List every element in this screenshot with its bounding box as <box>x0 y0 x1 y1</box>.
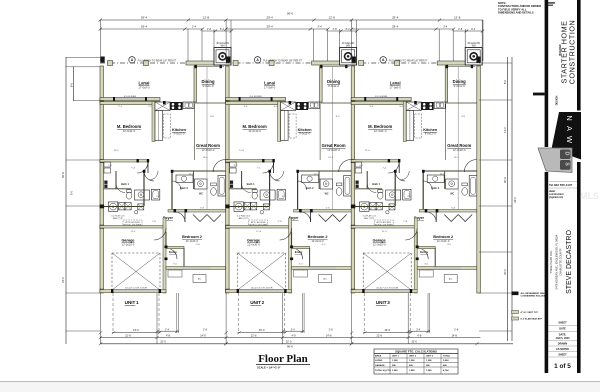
svg-text:TOTAL SQ FTG: TOTAL SQ FTG <box>375 369 391 372</box>
svg-text:44'-0: 44'-0 <box>513 197 517 203</box>
general note top right <box>498 1 541 15</box>
building right exterior wall <box>477 66 481 293</box>
svg-text:ALL RETAINMENT WALLS: ALL RETAINMENT WALLS <box>521 292 549 295</box>
logo black quad <box>552 112 582 160</box>
svg-text:1,568: 1,568 <box>392 370 398 372</box>
svg-text:96'-0: 96'-0 <box>287 345 293 349</box>
svg-text:3'-0: 3'-0 <box>70 190 74 195</box>
svg-text:1,208: 1,208 <box>392 360 398 362</box>
right dimension lines <box>507 57 509 341</box>
svg-text:1,208: 1,208 <box>426 360 432 362</box>
svg-text:20'-0: 20'-0 <box>503 269 507 275</box>
svg-text:4,704: 4,704 <box>443 369 449 372</box>
svg-text:N: N <box>565 115 574 120</box>
svg-text:D: D <box>564 152 570 156</box>
bottom dimension lines <box>100 337 480 339</box>
svg-text:CHARLOTTE COUNTY: CHARLOTTE COUNTY <box>559 248 563 276</box>
svg-text:DESIGN: DESIGN <box>556 96 559 106</box>
svg-text:AS NOTED: AS NOTED <box>556 348 569 351</box>
svg-text:CONSIDERED INCLUDED: CONSIDERED INCLUDED <box>521 296 548 298</box>
svg-text:40'-0: 40'-0 <box>503 176 507 183</box>
svg-text:1 of 5: 1 of 5 <box>554 363 571 370</box>
svg-text:12'-0: 12'-0 <box>503 127 507 133</box>
svg-text:1: 1 <box>136 300 139 305</box>
svg-text:3,624: 3,624 <box>443 359 449 362</box>
svg-text:SHEET: SHEET <box>558 354 567 357</box>
svg-text:4" OC VERT TYP: 4" OC VERT TYP <box>521 311 539 314</box>
logo gray flag <box>538 148 572 173</box>
svg-text:SQUARE FTG. CALCULATIONS: SQUARE FTG. CALCULATIONS <box>395 349 437 353</box>
top main dimension line <box>100 19 483 21</box>
svg-text:THESE PLANS FOR:: THESE PLANS FOR: <box>550 250 553 273</box>
leader stub into title block <box>533 93 545 96</box>
svg-text:96'-0: 96'-0 <box>287 12 294 16</box>
square footage table <box>374 349 458 374</box>
svg-text:UNIT 1: UNIT 1 <box>392 356 400 358</box>
svg-text:DIMENSIONS AND DETAILS: DIMENSIONS AND DETAILS <box>498 11 534 15</box>
svg-text:5476 KOREAN AVE., ENGLEWOOD, F: 5476 KOREAN AVE., ENGLEWOOD, FL 34224 <box>555 234 559 289</box>
svg-text:40'-8: 40'-8 <box>61 172 65 178</box>
phone line <box>549 181 577 183</box>
svg-text:1,568: 1,568 <box>409 370 415 372</box>
svg-text:AREA: AREA <box>375 355 382 358</box>
logo icon squares <box>560 150 571 160</box>
title block left bar <box>545 0 549 147</box>
svg-text:22'-0: 22'-0 <box>61 277 65 283</box>
svg-text:MLS: MLS <box>580 191 599 201</box>
svg-text:GARAGE: GARAGE <box>375 364 385 367</box>
svg-text:8'-0 SLAB HEAT AFF: 8'-0 SLAB HEAT AFF <box>521 318 543 321</box>
svg-text:2: 2 <box>262 300 265 305</box>
title block right bar <box>577 0 581 111</box>
svg-text:CONSTRUCTION: CONSTRUCTION <box>568 20 577 85</box>
svg-text:1,208: 1,208 <box>409 360 415 362</box>
svg-text:8'-0: 8'-0 <box>503 79 507 84</box>
svg-text:UNIT 2: UNIT 2 <box>409 356 417 358</box>
svg-text:S: S <box>564 162 570 166</box>
svg-text:SCALE = 1/4"=1'-0": SCALE = 1/4"=1'-0" <box>257 366 281 370</box>
svg-text:DRAWN: DRAWN <box>558 343 568 346</box>
svg-text:A: A <box>565 126 574 131</box>
unit 3 plan <box>350 16 484 346</box>
svg-text:UNIT 3: UNIT 3 <box>426 356 434 358</box>
svg-text:1,568: 1,568 <box>426 370 432 372</box>
revision rows <box>548 326 577 358</box>
svg-text:W: W <box>565 136 574 143</box>
svg-text:3: 3 <box>387 300 390 305</box>
svg-text:TOTAL: TOTAL <box>443 355 451 358</box>
sheet bottom edge shadow line <box>0 381 600 382</box>
svg-text:LIVING: LIVING <box>375 360 383 362</box>
svg-text:JAN 5, 2023: JAN 5, 2023 <box>555 337 570 340</box>
left dimension lines <box>65 57 67 344</box>
svg-text:@gmail.com: @gmail.com <box>549 196 563 199</box>
svg-text:8'-0: 8'-0 <box>70 82 74 87</box>
svg-text:STEVE DECASTRO: STEVE DECASTRO <box>566 230 573 294</box>
unit 1 plan <box>99 16 233 346</box>
svg-text:Tel 843 555-1107: Tel 843 555-1107 <box>549 183 573 187</box>
svg-text:SHEET: SHEET <box>558 322 567 325</box>
svg-text:DATE: DATE <box>559 328 566 331</box>
svg-text:Floor Plan: Floor Plan <box>258 353 308 365</box>
legend block <box>512 292 549 321</box>
unit 2 plan <box>224 16 358 346</box>
